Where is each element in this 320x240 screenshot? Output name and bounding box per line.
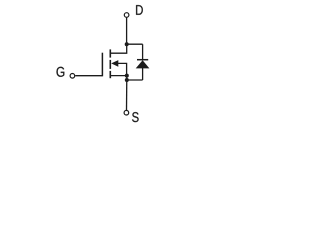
terminal G circle [70, 74, 75, 79]
wire drain stub [110, 44, 127, 53]
label D [136, 5, 143, 15]
label S [132, 112, 139, 122]
mosfet channel bottom dash [109, 71, 111, 78]
wire gate lead [75, 75, 102, 77]
terminal S circle [124, 110, 129, 115]
junction dot drain [125, 42, 129, 46]
junction dot diode bottom [125, 78, 129, 82]
wire diode bottom to rail [127, 79, 143, 81]
wire diode cathode vertical [142, 44, 144, 60]
wire body arrow to source [118, 63, 127, 75]
wire drain to diode [127, 43, 143, 45]
mosfet gate plate [101, 53, 103, 77]
mosfet channel top dash [109, 49, 111, 57]
label G [57, 67, 65, 77]
junction dot source stub [125, 74, 129, 78]
wire drain vertical [126, 17, 128, 44]
wire source stub [110, 75, 127, 77]
diode D1 cathode bar [137, 59, 148, 61]
terminal D circle [124, 13, 129, 18]
mosfet channel middle dash [109, 60, 111, 69]
diode D1 triangle [136, 60, 150, 68]
wire source vertical [126, 76, 128, 111]
mosfet body arrow [111, 60, 118, 67]
wire diode anode vertical [142, 68, 144, 80]
